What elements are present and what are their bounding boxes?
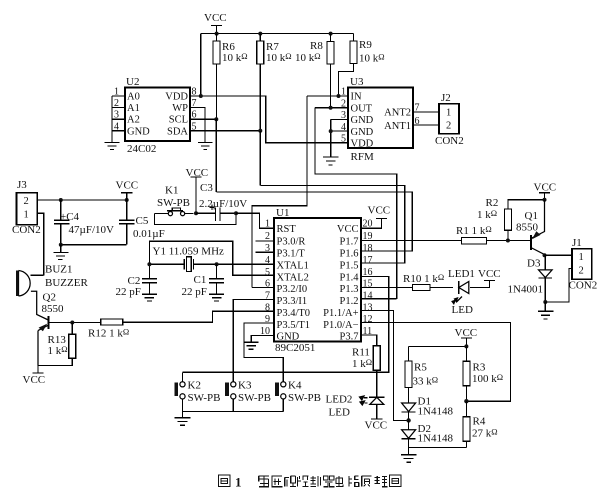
- glyph dian: [336, 476, 343, 487]
- svg-text:Q2: Q2: [43, 292, 56, 304]
- svg-text:1: 1: [265, 219, 270, 230]
- ground C4C5: [53, 245, 68, 260]
- svg-text:8550: 8550: [516, 222, 539, 234]
- svg-text:XTAL2: XTAL2: [277, 273, 309, 284]
- svg-text:2.2µF/10V: 2.2µF/10V: [199, 198, 247, 210]
- svg-text:BUZZER: BUZZER: [45, 277, 88, 289]
- svg-text:VCC: VCC: [337, 224, 359, 235]
- node U3 gnd: [329, 129, 333, 133]
- svg-text:20: 20: [363, 219, 373, 230]
- wire bus to R9: [353, 34, 355, 41]
- svg-text:ANT1: ANT1: [384, 121, 411, 132]
- svg-text:22 pF: 22 pF: [182, 286, 207, 298]
- glyph tu2: [390, 475, 402, 487]
- svg-text:24C02: 24C02: [127, 143, 156, 155]
- resistor R12: [101, 311, 274, 325]
- svg-text:K2: K2: [188, 380, 201, 392]
- svg-text:8: 8: [192, 87, 197, 98]
- resistor R11: [373, 346, 380, 398]
- diode D1: [402, 403, 416, 420]
- wire U3 pin2 OUT: [315, 107, 348, 109]
- svg-text:5: 5: [192, 122, 197, 133]
- wire R5 R3 top rail: [409, 345, 467, 347]
- svg-text:SW-PB: SW-PB: [238, 392, 271, 404]
- ground D3: [538, 302, 554, 319]
- svg-text:P1.5: P1.5: [340, 261, 359, 272]
- svg-text:SCL: SCL: [169, 115, 188, 126]
- svg-text:CON2: CON2: [435, 135, 464, 147]
- wire U3 pin4 GND: [331, 130, 348, 132]
- glyph tu1: [219, 475, 231, 487]
- LED LED1: [452, 281, 495, 304]
- svg-text:14: 14: [363, 291, 373, 302]
- wire K1 parallel loop: [155, 213, 237, 224]
- VCC symbol R3 block: [461, 338, 472, 346]
- svg-text:P3.2/I0: P3.2/I0: [277, 284, 308, 295]
- node VCC R2: [543, 198, 547, 202]
- node R3 R4: [464, 399, 468, 403]
- wire pin18 SCL net: [216, 192, 412, 251]
- node xtal C1: [215, 262, 219, 266]
- svg-text:U2: U2: [126, 76, 139, 88]
- svg-text:P3.4/T0: P3.4/T0: [277, 308, 311, 319]
- wire U3 pin5 VDD stub: [343, 142, 348, 144]
- svg-text:RST: RST: [277, 224, 297, 235]
- svg-text:D3: D3: [527, 258, 541, 270]
- svg-text:ANT2: ANT2: [384, 108, 411, 119]
- U2 pin4 stub: [112, 130, 125, 132]
- wire K rail top: [183, 371, 389, 373]
- wire R7 to corner: [259, 131, 261, 186]
- wire bus to U2 pin8: [200, 34, 202, 96]
- VCC symbol U1 pin20: [361, 219, 387, 229]
- svg-text:VCC: VCC: [116, 180, 139, 192]
- node D1 D2: [406, 418, 410, 422]
- wire pin13 to D1 D2: [361, 310, 409, 420]
- svg-text:4: 4: [265, 255, 270, 266]
- svg-text:U3: U3: [350, 76, 364, 88]
- svg-text:SDA: SDA: [167, 127, 188, 138]
- svg-text:3: 3: [114, 110, 119, 121]
- glyph qi: [323, 476, 334, 487]
- resistor R7: [257, 34, 264, 131]
- resistor R6: [213, 34, 220, 120]
- resistor R8: [327, 34, 334, 108]
- svg-text:13: 13: [363, 303, 373, 314]
- wire pin7 to K3: [233, 299, 274, 381]
- wire R6 to corner: [215, 119, 217, 192]
- ground C1: [209, 294, 224, 301]
- svg-text:OUT: OUT: [351, 104, 373, 115]
- svg-text:2: 2: [24, 196, 29, 207]
- U2 pin1 stub: [112, 95, 125, 97]
- svg-text:1N4001: 1N4001: [508, 284, 543, 296]
- svg-text:K3: K3: [238, 380, 252, 392]
- svg-text:LED: LED: [329, 407, 350, 419]
- node R2 base: [506, 239, 510, 243]
- svg-text:1N4148: 1N4148: [418, 433, 454, 445]
- svg-text:J3: J3: [17, 179, 27, 191]
- svg-text:C3: C3: [200, 182, 213, 194]
- ground U3: [323, 157, 338, 165]
- glyph kong: [298, 476, 309, 487]
- svg-text:16: 16: [363, 267, 373, 278]
- svg-text:P3.7: P3.7: [340, 332, 359, 343]
- wire U3 pin3 GND: [331, 119, 348, 157]
- capacitor C2: [142, 279, 157, 295]
- node C4 top: [59, 198, 63, 202]
- svg-text:Q1: Q1: [525, 210, 538, 222]
- resistor R10: [412, 285, 453, 291]
- svg-text:3: 3: [341, 110, 346, 121]
- transistor Q1: [531, 200, 545, 256]
- switch K3: [225, 382, 236, 412]
- svg-text:1: 1: [446, 108, 451, 119]
- wire pin19 to R1: [361, 240, 462, 242]
- U2 pin2 stub: [112, 107, 125, 109]
- svg-text:0.01µF: 0.01µF: [133, 228, 165, 240]
- wire U2 left pins to ground: [111, 96, 113, 143]
- svg-text:VCC: VCC: [478, 268, 501, 280]
- svg-text:CON2: CON2: [12, 224, 41, 236]
- connector J1 box: [572, 249, 592, 280]
- svg-text:7: 7: [192, 98, 197, 109]
- svg-text:P3.5/T1: P3.5/T1: [277, 320, 311, 331]
- svg-text:VCC: VCC: [368, 205, 391, 217]
- svg-text:A1: A1: [127, 103, 140, 114]
- svg-text:8550: 8550: [42, 303, 65, 315]
- svg-text:R3: R3: [473, 362, 486, 374]
- svg-text:R5: R5: [414, 362, 427, 374]
- svg-text:Y1 11.059 MHz: Y1 11.059 MHz: [153, 246, 225, 258]
- svg-text:22 pF: 22 pF: [116, 286, 141, 298]
- resistor R1: [462, 238, 531, 244]
- svg-text:VCC: VCC: [186, 167, 209, 179]
- resistor R4: [463, 401, 470, 447]
- node SDA R7: [258, 129, 262, 133]
- node IN R9: [337, 94, 341, 98]
- svg-text:2: 2: [341, 99, 346, 110]
- svg-text:VCC: VCC: [365, 420, 388, 432]
- svg-text:7: 7: [415, 103, 420, 114]
- svg-text:P1.7: P1.7: [340, 237, 359, 248]
- svg-text:GND: GND: [277, 332, 300, 343]
- glyph yuan: [362, 476, 372, 487]
- svg-text:6: 6: [415, 116, 420, 127]
- switch K1: [155, 208, 194, 216]
- svg-text:VDD: VDD: [165, 92, 188, 103]
- wire pin11 to R11: [361, 335, 377, 346]
- switch K2: [174, 372, 185, 411]
- svg-text:19: 19: [363, 231, 373, 242]
- ground C2: [142, 294, 157, 301]
- svg-text:4: 4: [341, 122, 346, 133]
- wire U3 pin1 IN: [307, 95, 348, 97]
- wire pin14 stub: [361, 298, 397, 300]
- svg-text:J2: J2: [441, 92, 451, 104]
- svg-text:18: 18: [363, 243, 373, 254]
- svg-text:8: 8: [265, 303, 270, 314]
- svg-text:89C2051: 89C2051: [275, 342, 315, 354]
- svg-text:VCC: VCC: [204, 12, 227, 24]
- wire pin10 GND: [251, 335, 274, 342]
- svg-text:4: 4: [114, 122, 119, 133]
- svg-text:P1.4: P1.4: [340, 273, 360, 284]
- node R13 tap: [70, 321, 74, 325]
- svg-text:K4: K4: [288, 380, 302, 392]
- svg-text:XTAL1: XTAL1: [277, 261, 309, 272]
- capacitor C5: [119, 200, 135, 245]
- svg-text:WP: WP: [172, 103, 188, 114]
- capacitor C1: [209, 264, 224, 294]
- svg-text:P1.0/A−: P1.0/A−: [323, 320, 358, 331]
- svg-text:10: 10: [260, 326, 270, 337]
- U1 pin2 stub: [256, 240, 275, 242]
- wire C4 C5 bottom: [61, 244, 127, 246]
- crystal Y1: [149, 257, 216, 272]
- node OUT R8: [329, 106, 333, 110]
- wire pin9 to K4: [244, 323, 283, 382]
- svg-text:VCC: VCC: [534, 182, 557, 194]
- svg-text:R9: R9: [359, 39, 372, 51]
- VCC symbol top: [211, 26, 222, 34]
- svg-text:P1.6: P1.6: [340, 249, 359, 260]
- svg-text:R4: R4: [473, 416, 486, 428]
- svg-text:2: 2: [114, 98, 119, 109]
- resistor R3: [463, 346, 470, 401]
- U2 pin3 stub: [112, 118, 125, 120]
- wire xtal to XTAL1: [217, 263, 274, 265]
- switch K4: [275, 382, 286, 412]
- svg-text:SW-PB: SW-PB: [188, 392, 221, 404]
- svg-text:2: 2: [446, 121, 451, 132]
- connector J3 box: [17, 193, 38, 225]
- svg-text:47µF/10V: 47µF/10V: [69, 224, 115, 236]
- wire U2 pin6 SCL: [190, 118, 216, 120]
- glyph li: [375, 476, 388, 487]
- resistor R13: [38, 323, 76, 366]
- node Q1 collector: [543, 253, 547, 257]
- glyph gan: [259, 476, 270, 487]
- svg-text:1N4148: 1N4148: [418, 406, 454, 418]
- node RST: [234, 211, 238, 215]
- svg-text:GND: GND: [351, 115, 374, 126]
- svg-text:LED2: LED2: [326, 394, 353, 406]
- svg-text:1: 1: [24, 210, 29, 221]
- svg-text:SW-PB: SW-PB: [157, 197, 190, 209]
- VCC symbol Q1: [539, 193, 550, 200]
- svg-text:VCC: VCC: [455, 327, 478, 339]
- ground U1: [244, 342, 259, 349]
- glyph ying: [271, 476, 282, 487]
- node VCC K1 C3: [194, 211, 198, 215]
- svg-text:15: 15: [363, 279, 373, 290]
- node xtal C2: [147, 262, 151, 266]
- wire xtal left riser: [149, 241, 274, 278]
- wire RST to U1 pin1: [236, 213, 274, 228]
- wire U3 ANT1 to J2 pin2: [413, 124, 439, 126]
- wire pin12 to R3 R4: [361, 323, 510, 402]
- svg-text:+C4: +C4: [60, 211, 80, 223]
- resistor R2: [504, 200, 544, 241]
- svg-text:P1.3: P1.3: [340, 284, 359, 295]
- LED LED2: [360, 396, 385, 419]
- wire U2 pin7 WP to ground: [190, 108, 205, 143]
- svg-text:K1: K1: [165, 185, 178, 197]
- resistor R5: [405, 346, 412, 403]
- wire J3 pin1 to buzzer: [31, 213, 44, 275]
- svg-text:2: 2: [579, 266, 584, 277]
- svg-text:U1: U1: [276, 207, 289, 219]
- svg-text:7: 7: [265, 291, 270, 302]
- wire Q2 base: [48, 322, 100, 324]
- wire VCC bus: [201, 33, 354, 35]
- diode D3: [539, 255, 553, 302]
- svg-text:P1.1/A+: P1.1/A+: [323, 308, 358, 319]
- transistor Q2: [38, 316, 48, 366]
- ground U2: [105, 143, 120, 150]
- caption figure title: [219, 475, 402, 490]
- svg-text:RFM: RFM: [351, 151, 374, 163]
- wire net IN down-around: [252, 96, 307, 288]
- svg-text:1: 1: [235, 475, 242, 490]
- svg-text:P3.0/R: P3.0/R: [277, 237, 306, 248]
- wire J3 pin2 VCC rail: [37, 199, 126, 201]
- svg-text:P3.3/I1: P3.3/I1: [277, 296, 308, 307]
- node D3 bottom: [543, 300, 547, 304]
- wire U3 ANT2 to J2 pin1: [413, 111, 439, 113]
- resistor R9: [339, 41, 358, 96]
- node SCL R6: [214, 117, 218, 121]
- svg-text:A0: A0: [127, 92, 140, 103]
- capacitor C4: [54, 200, 69, 245]
- svg-text:11: 11: [363, 326, 373, 337]
- wire pin16 to K rail: [361, 277, 389, 374]
- chip U3 box: [348, 88, 413, 149]
- ground R block: [401, 448, 417, 463]
- wire net IN into pin6: [252, 287, 274, 289]
- svg-text:LED1: LED1: [448, 268, 475, 280]
- svg-text:P1.2: P1.2: [340, 296, 359, 307]
- svg-text:GND: GND: [351, 127, 374, 138]
- wire K rail bottom: [183, 411, 284, 413]
- svg-text:LED: LED: [452, 304, 473, 316]
- svg-text:5: 5: [341, 134, 346, 145]
- svg-text:VDD: VDD: [351, 139, 374, 150]
- svg-text:1: 1: [341, 87, 346, 98]
- svg-text:C5: C5: [136, 215, 149, 227]
- capacitor C3: [196, 205, 236, 221]
- VCC symbol mid-left: [121, 193, 133, 200]
- svg-text:SW-PB: SW-PB: [288, 392, 321, 404]
- svg-text:J1: J1: [572, 237, 582, 249]
- wire to J1 pin1: [545, 254, 573, 256]
- glyph zhi: [311, 476, 321, 487]
- node U2 pin8: [199, 94, 203, 98]
- svg-text:6: 6: [265, 279, 270, 290]
- wire U2 pin8 VDD: [190, 96, 348, 143]
- VCC inverted below Q2: [32, 366, 43, 373]
- node VCC R3: [464, 344, 468, 348]
- buzzer BUZ1: [16, 271, 30, 297]
- svg-text:P3.1/T: P3.1/T: [277, 249, 306, 260]
- glyph lu: [349, 476, 359, 487]
- wire net OUT around right: [315, 108, 397, 299]
- svg-text:BUZ1: BUZ1: [45, 264, 73, 276]
- wire pin17 SDA net: [260, 186, 404, 264]
- svg-text:1: 1: [579, 252, 584, 263]
- svg-text:12: 12: [363, 314, 373, 325]
- svg-text:2: 2: [265, 231, 270, 242]
- wire U2 pin5 SDA: [190, 130, 260, 132]
- ground WP: [198, 143, 213, 150]
- chip U2 box: [125, 88, 190, 142]
- ground K switches: [175, 412, 191, 426]
- VCC inverted LED2: [371, 418, 382, 420]
- svg-text:VCC: VCC: [23, 374, 46, 386]
- node VCC C5: [125, 198, 129, 202]
- chip U1 box: [274, 218, 361, 342]
- glyph suo: [285, 476, 297, 487]
- svg-text:6: 6: [192, 110, 197, 121]
- svg-text:CON2: CON2: [569, 280, 598, 292]
- node gnd tap: [59, 243, 63, 247]
- wire bottom rail R4 D2: [409, 447, 467, 449]
- node bus R7: [258, 32, 262, 36]
- svg-text:5: 5: [265, 267, 270, 278]
- svg-text:9: 9: [265, 314, 270, 325]
- svg-text:IN: IN: [351, 92, 362, 103]
- connector J2 box: [439, 104, 459, 134]
- wire pin15 to R10: [361, 287, 412, 289]
- diode D2: [402, 420, 416, 447]
- svg-text:3: 3: [265, 243, 270, 254]
- wire buzzer bottom to Q2 collector: [31, 291, 48, 320]
- svg-text:A2: A2: [127, 115, 140, 126]
- svg-text:17: 17: [363, 255, 373, 266]
- svg-text:GND: GND: [127, 127, 150, 138]
- VCC symbol above C3: [190, 177, 201, 213]
- node bus R6: [215, 32, 219, 36]
- wire J1 pin2 loop: [545, 269, 572, 303]
- svg-text:C1: C1: [194, 274, 207, 286]
- U1 pin3 stub: [256, 251, 275, 253]
- svg-text:1: 1: [114, 87, 119, 98]
- node bus R8: [329, 32, 333, 36]
